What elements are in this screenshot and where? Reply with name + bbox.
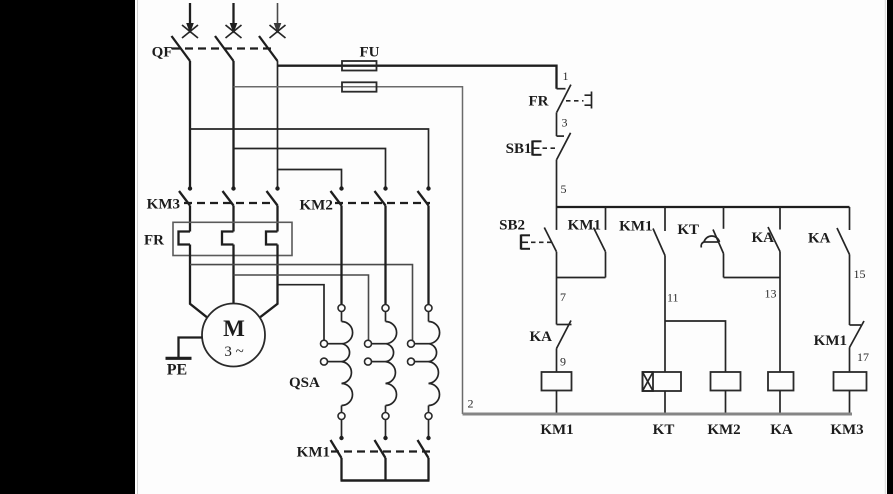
QSA winding 2: [365, 305, 397, 438]
coil KM3: [834, 372, 867, 391]
svg-text:KM2: KM2: [707, 422, 740, 438]
coil KM2: [711, 372, 741, 391]
thermal relay FR box: [173, 222, 292, 255]
FR heater element 3: [266, 232, 278, 245]
button SB2 NO: [544, 207, 556, 252]
svg-text:KA: KA: [530, 329, 553, 345]
wire FR to motor phase1: [190, 245, 207, 318]
svg-text:KM1: KM1: [568, 218, 601, 234]
wire phase2 to fuse FU bottom line: [234, 87, 463, 414]
coil KT: [643, 372, 682, 391]
page edge line: [137, 0, 139, 494]
supply line L1 arrow: [186, 3, 194, 34]
svg-text:KM1: KM1: [619, 219, 652, 235]
svg-text:KM1: KM1: [814, 333, 847, 349]
PE ground bar: [166, 357, 192, 360]
control bottom bus 2: [463, 413, 853, 416]
contactor KM2 pole 1: [331, 186, 344, 205]
KT delay symbol: [701, 236, 719, 248]
motor M circle: [202, 304, 265, 367]
wire motor2 to QSA tap2: [234, 275, 369, 340]
wire KM2 pole3 to QSA winding3: [427, 206, 429, 305]
wire phase3 to fuse FU top line: [278, 66, 557, 89]
FR linkage dashed: [566, 100, 584, 102]
svg-text:M: M: [223, 316, 245, 341]
contactor KM2 linkage dashed: [335, 202, 430, 204]
wire KM2 pole2 to QSA winding2: [384, 206, 386, 305]
svg-text:KA: KA: [752, 230, 775, 246]
breaker QF pole 3 blade: [259, 36, 278, 61]
svg-text:FR: FR: [144, 233, 164, 249]
breaker QF pole 3 cross: [270, 25, 286, 38]
wire KM1 star point: [341, 458, 430, 481]
contact KA NO branch6: [837, 207, 850, 325]
svg-text:KM2: KM2: [300, 198, 333, 214]
SB1 actuator: [533, 141, 558, 156]
PE ground wire: [179, 338, 203, 358]
contact KM1 NC branch6: [850, 321, 865, 372]
svg-text:KM1: KM1: [540, 422, 573, 438]
contactor KM1 star pole 1: [331, 436, 344, 458]
contact KA NO branch5: [768, 207, 780, 372]
coil KA: [768, 372, 794, 391]
wire seal junction: [557, 277, 606, 279]
breaker QF pole 1 cross: [182, 25, 198, 38]
wire KT to KA branch: [724, 277, 781, 279]
SB2 actuator: [521, 235, 552, 250]
wire coil KA to bus2: [779, 391, 781, 415]
wire coil KM1 to bus2: [556, 391, 558, 415]
svg-text:QF: QF: [152, 45, 173, 61]
wire node5: [556, 160, 558, 208]
svg-text:KT: KT: [653, 422, 675, 438]
contactor KM3 pole 3: [267, 186, 280, 205]
wire KM3 poles into FR: [190, 206, 278, 232]
wire node3: [556, 112, 558, 136]
contactor KM3 pole 2: [223, 186, 236, 205]
wire SB2 to junction: [556, 252, 558, 325]
wire phase3 QF to KM3: [277, 61, 279, 188]
contactor KM1 linkage dashed: [331, 450, 430, 452]
contact KM1 NO branch3: [653, 207, 665, 372]
svg-text:KM3: KM3: [147, 197, 180, 213]
svg-text:SB1: SB1: [506, 141, 532, 157]
control top bus: [557, 206, 850, 208]
svg-text:17: 17: [857, 350, 869, 364]
breaker QF pole 2 cross: [226, 25, 242, 38]
fuse FU element 1: [342, 61, 377, 71]
contact KA NC branch1: [557, 321, 572, 373]
wire phase1 to KM2 pole3: [190, 129, 429, 188]
QSA winding 1: [321, 305, 353, 438]
wire phase2 to KM2 pole2: [234, 149, 386, 188]
svg-text:FR: FR: [529, 94, 549, 110]
FR trip symbol: [585, 92, 592, 109]
QSA winding 3: [408, 305, 440, 438]
FR heater element 2: [222, 232, 234, 245]
wire coil KM3 to bus2: [849, 391, 851, 415]
svg-text:15: 15: [854, 267, 866, 281]
supply line L2 arrow: [230, 3, 238, 34]
wire phase3 to KM2 pole1: [278, 170, 342, 188]
contactor KM2 pole 3: [418, 186, 431, 205]
right black scan bar: [887, 0, 893, 494]
breaker QF pole 2 blade: [215, 36, 234, 61]
svg-text:KA: KA: [808, 231, 831, 247]
FR heater element 1: [179, 232, 191, 245]
svg-text:9: 9: [560, 355, 566, 369]
svg-text:3 ~: 3 ~: [224, 344, 243, 360]
svg-text:KM3: KM3: [830, 422, 863, 438]
wire KM2 pole1 to QSA winding1: [340, 206, 342, 305]
coil KM1: [542, 372, 572, 391]
wire coil KT to bus2: [664, 391, 666, 414]
svg-text:1: 1: [563, 69, 569, 83]
breaker QF linkage dashed: [172, 47, 272, 49]
wire branch3 to KM2 coil: [665, 321, 726, 372]
svg-text:3: 3: [562, 116, 568, 130]
svg-text:2: 2: [468, 397, 474, 411]
svg-text:PE: PE: [167, 362, 187, 379]
svg-text:QSA: QSA: [289, 375, 320, 391]
contactor KM1 star pole 2: [375, 436, 388, 458]
svg-text:KM1: KM1: [297, 445, 330, 461]
wire FR to motor phase3: [260, 245, 278, 318]
button SB1 NC: [557, 133, 571, 160]
svg-text:13: 13: [765, 287, 777, 301]
svg-text:FU: FU: [360, 45, 380, 61]
wire phase2 QF to KM3: [232, 61, 234, 188]
contactor KM2 pole 2: [375, 186, 388, 205]
svg-text:KT: KT: [677, 222, 699, 238]
contact FR NC: [557, 85, 571, 113]
supply line L3 arrow: [274, 3, 282, 34]
svg-text:7: 7: [560, 290, 566, 304]
wire phase1 QF to KM3: [189, 61, 191, 188]
left black scan bar: [0, 0, 135, 494]
wire motor3 to QSA tap1: [278, 285, 325, 341]
svg-text:5: 5: [561, 182, 567, 196]
contactor KM3 pole 1: [179, 186, 192, 205]
svg-text:KA: KA: [770, 422, 793, 438]
wire FR to motor phase2: [232, 245, 234, 304]
contact KM1 seal NO: [594, 207, 606, 278]
breaker QF pole 1 blade: [172, 36, 191, 61]
wire coil KM2 to bus2: [725, 391, 727, 415]
contact KT delayed NO: [713, 207, 724, 278]
contactor KM1 star pole 3: [418, 436, 431, 458]
svg-text:11: 11: [667, 291, 679, 305]
contactor KM3 linkage dashed: [184, 202, 276, 204]
fuse FU element 2: [342, 82, 377, 91]
svg-text:SB2: SB2: [499, 218, 525, 234]
wire motor1 to QSA tap3: [190, 265, 413, 341]
